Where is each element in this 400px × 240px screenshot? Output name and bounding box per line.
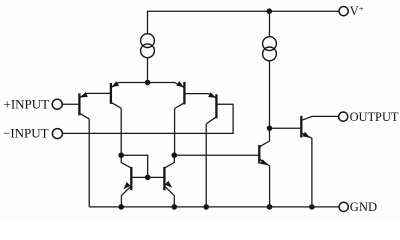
svg-text:V+: V+ (350, 4, 364, 19)
node B (mirror output) (172, 152, 178, 158)
wire Q4 collector down to ground rail (205, 124, 207, 207)
node mirror base tie (145, 175, 151, 181)
current source I2 (263, 37, 277, 61)
transistor Q8 (output NPN) (301, 116, 338, 207)
wire node B to Q7 base (174, 154, 258, 156)
wire mirror bases (131, 176, 164, 178)
terminal -INPUT (52, 129, 62, 139)
wire junction to Q3 emitter (148, 83, 184, 88)
terminal OUTPUT (339, 112, 348, 121)
wire Q2 collector down to mirror node A (120, 108, 122, 155)
wire junction to Q2 emitter (111, 83, 147, 88)
transistor Q3 (PNP inner right) (175, 81, 185, 108)
wire +INPUT to Q1 base (62, 103, 79, 105)
node Q6 emitter at ground rail (172, 204, 178, 210)
node Q8 emitter at ground rail (309, 204, 315, 210)
transistor Q4 (PNP input, -IN) (184, 92, 216, 124)
node Q4 collector at ground rail (203, 204, 209, 210)
wire ground rail (89, 206, 339, 208)
node top rail / I2 tap (267, 8, 273, 14)
wire I2 to node C (269, 61, 271, 128)
wire mirror diode link (121, 155, 148, 177)
transistor Q1 (PNP input, +IN) (79, 92, 111, 119)
node C (Q7 collector / Q8 base) (267, 125, 273, 131)
svg-text:GND: GND (350, 200, 377, 214)
terminal V+ (339, 7, 348, 16)
terminal +INPUT (52, 99, 62, 109)
transistor Q7 (driver NPN) (259, 128, 269, 207)
wire node C to Q8 base (270, 127, 301, 129)
wire top rail to I2 (269, 11, 271, 37)
wire -INPUT to Q4 base loop (63, 104, 234, 133)
svg-text:+INPUT: +INPUT (4, 96, 50, 111)
svg-text:−INPUT: −INPUT (3, 126, 49, 141)
wire Q3 collector down to mirror node B (174, 109, 176, 156)
node A (mirror input) (118, 152, 124, 158)
node Q5 emitter at ground rail (118, 204, 124, 210)
wire Q1 collector down to ground rail (88, 119, 90, 207)
transistor Q5 (mirror left NPN) (121, 155, 131, 207)
node Q7 emitter at ground rail (267, 204, 273, 210)
current source I1 (141, 34, 155, 58)
wire I1 to input-stage node (147, 58, 149, 83)
wire top V+ rail (148, 11, 340, 33)
node input-stage emitter junction (145, 80, 151, 86)
svg-text:OUTPUT: OUTPUT (350, 110, 399, 124)
transistor Q2 (PNP inner left) (111, 81, 121, 108)
transistor Q6 (mirror right NPN) (164, 155, 174, 207)
terminal GND (339, 202, 348, 211)
